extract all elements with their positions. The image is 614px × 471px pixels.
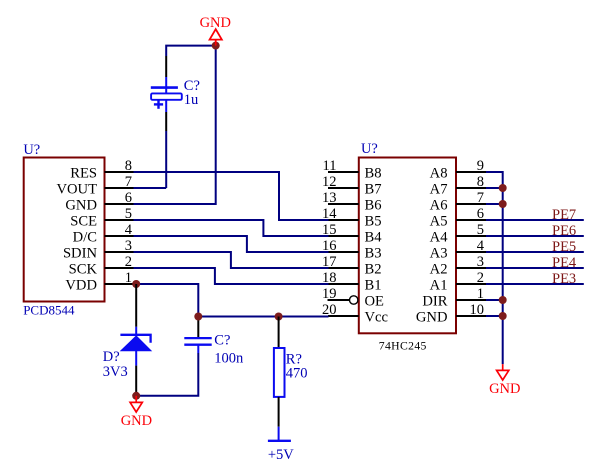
svg-text:U?: U? bbox=[23, 142, 40, 158]
wire net PE7 bbox=[486, 219, 584, 221]
svg-text:3: 3 bbox=[125, 238, 132, 254]
wire SCK(2) to B1(18) bbox=[134, 268, 329, 284]
svg-text:4: 4 bbox=[477, 238, 485, 254]
pin 12 (B7) of U2 74HC245 bbox=[322, 174, 382, 198]
value 1u of C1 bbox=[184, 92, 199, 108]
svg-text:B7: B7 bbox=[365, 182, 382, 198]
svg-text:GND: GND bbox=[65, 198, 97, 214]
svg-text:Vcc: Vcc bbox=[365, 310, 389, 326]
svg-text:A8: A8 bbox=[430, 166, 448, 182]
pin 14 (B5) of U2 74HC245 bbox=[322, 206, 382, 230]
svg-text:4: 4 bbox=[125, 222, 133, 238]
pin 15 (B4) of U2 74HC245 bbox=[322, 222, 382, 246]
junction bus row 7 bbox=[499, 200, 507, 208]
pin 6 (GND) of U1 PCD8544 bbox=[65, 190, 133, 214]
svg-text:1: 1 bbox=[477, 286, 484, 302]
wire VDD(1) to Vcc node bbox=[134, 284, 199, 317]
svg-text:PE6: PE6 bbox=[552, 223, 576, 239]
pin 5 (SCE) of U1 PCD8544 bbox=[70, 206, 133, 230]
pin 2 (SCK) of U1 PCD8544 bbox=[69, 254, 134, 278]
svg-text:D?: D? bbox=[103, 349, 120, 365]
svg-text:6: 6 bbox=[125, 190, 132, 206]
designator R? of R1 bbox=[286, 351, 302, 367]
svg-text:A4: A4 bbox=[430, 230, 449, 246]
pin 7 (A6) of U2 74HC245 bbox=[430, 190, 486, 214]
wire A6(7) to bus bbox=[486, 203, 503, 205]
svg-text:2: 2 bbox=[477, 270, 484, 286]
designator U? of 74HC245 bbox=[361, 141, 378, 157]
svg-text:B3: B3 bbox=[365, 246, 382, 262]
wire DIR(1) to bus bbox=[486, 299, 503, 301]
value 100n of C2 bbox=[214, 350, 244, 366]
pin 3 (A2) of U2 74HC245 bbox=[430, 254, 486, 278]
power port +5V bbox=[268, 427, 294, 463]
svg-text:DIR: DIR bbox=[422, 294, 447, 310]
value 3V3 of D1 bbox=[103, 364, 128, 380]
svg-text:U?: U? bbox=[361, 141, 378, 157]
svg-text:8: 8 bbox=[477, 174, 484, 190]
wire GND(10) to bus bbox=[486, 315, 503, 317]
svg-text:74HC245: 74HC245 bbox=[379, 340, 427, 353]
svg-text:3V3: 3V3 bbox=[103, 364, 128, 380]
svg-text:+5V: +5V bbox=[268, 447, 294, 463]
svg-text:PE3: PE3 bbox=[552, 271, 576, 287]
wire A7(8) to bus bbox=[486, 187, 503, 189]
svg-text:GND: GND bbox=[416, 310, 448, 326]
pin 5 (A4) of U2 74HC245 bbox=[430, 222, 486, 246]
junction bus row 1 bbox=[499, 296, 507, 304]
pin 10 (GND) of U2 74HC245 bbox=[416, 302, 486, 326]
junction at top GND bbox=[212, 42, 220, 50]
wire Vcc node to pin 20 bbox=[198, 316, 328, 318]
comment label 74HC245 bbox=[379, 340, 427, 353]
svg-text:2: 2 bbox=[125, 254, 132, 270]
pin 13 (B6) of U2 74HC245 bbox=[322, 190, 382, 214]
junction bus row 8 bbox=[499, 184, 507, 192]
svg-text:A3: A3 bbox=[430, 246, 448, 262]
svg-text:B2: B2 bbox=[365, 262, 382, 278]
resistor R1 470 bbox=[274, 317, 285, 427]
wire A8(9) down right bus bbox=[486, 172, 503, 364]
svg-text:OE: OE bbox=[365, 294, 385, 310]
svg-text:PE7: PE7 bbox=[552, 207, 576, 223]
wire top: C1 top to GND port bbox=[166, 46, 216, 56]
svg-text:VDD: VDD bbox=[65, 278, 97, 294]
pin 20 (Vcc) of U2 74HC245 bbox=[322, 302, 389, 326]
pin 8 (RES) of U1 PCD8544 bbox=[70, 158, 133, 182]
net label PE3 bbox=[552, 271, 576, 287]
net label PE7 bbox=[552, 207, 576, 223]
wire SCE(5) to B4(15) bbox=[134, 220, 329, 236]
pin 6 (A5) of U2 74HC245 bbox=[430, 206, 486, 230]
svg-text:B5: B5 bbox=[365, 214, 382, 230]
junction bottom-left GND node bbox=[132, 392, 140, 400]
svg-text:GND: GND bbox=[489, 381, 520, 397]
pin 9 (A8) of U2 74HC245 bbox=[430, 158, 486, 182]
svg-text:A5: A5 bbox=[430, 214, 448, 230]
svg-text:11: 11 bbox=[323, 158, 337, 174]
junction bus row 10 bbox=[499, 312, 507, 320]
power port GND (top) bbox=[200, 15, 231, 46]
net label PE4 bbox=[552, 255, 577, 271]
wire net PE5 bbox=[486, 251, 584, 253]
svg-text:D/C: D/C bbox=[73, 230, 97, 246]
pin 18 (B1) of U2 74HC245 bbox=[322, 270, 382, 294]
svg-text:8: 8 bbox=[125, 158, 132, 174]
pin 1 (VDD) of U1 PCD8544 bbox=[65, 270, 133, 294]
svg-text:SCK: SCK bbox=[69, 262, 98, 278]
junction R1 node bbox=[275, 313, 283, 321]
net label PE6 bbox=[552, 223, 576, 239]
pin 1 (DIR) of U2 74HC245 bbox=[422, 286, 486, 310]
pin 2 (A1) of U2 74HC245 bbox=[430, 270, 486, 294]
value 470 of R1 bbox=[286, 365, 308, 381]
designator C? of C1 bbox=[184, 78, 200, 94]
pin 17 (B2) of U2 74HC245 bbox=[322, 254, 382, 278]
svg-text:A7: A7 bbox=[430, 182, 448, 198]
svg-text:RES: RES bbox=[70, 166, 97, 182]
wire VOUT(7) to C1 bottom bbox=[134, 187, 167, 189]
svg-text:B6: B6 bbox=[365, 198, 382, 214]
svg-text:10: 10 bbox=[470, 302, 485, 318]
comment label PCD8544 bbox=[23, 303, 75, 318]
svg-text:A1: A1 bbox=[430, 278, 448, 294]
svg-text:B8: B8 bbox=[365, 166, 382, 182]
svg-text:PCD8544: PCD8544 bbox=[23, 303, 75, 318]
svg-text:5: 5 bbox=[477, 222, 484, 238]
IC U2 74HC245 body bbox=[359, 158, 456, 334]
svg-text:5: 5 bbox=[125, 206, 132, 222]
wire RES(8) to B5(14) bbox=[134, 172, 329, 220]
pin 8 (A7) of U2 74HC245 bbox=[430, 174, 486, 198]
pin 19 (OE) of U2 74HC245 bbox=[322, 286, 384, 310]
wire D/C(4) to B3(16) bbox=[134, 236, 329, 252]
designator C? of C2 bbox=[214, 332, 230, 348]
svg-text:C?: C? bbox=[214, 332, 230, 348]
svg-text:7: 7 bbox=[125, 174, 132, 190]
power port GND (bottom right) bbox=[489, 364, 520, 397]
svg-text:A6: A6 bbox=[430, 198, 448, 214]
pin 11 (B8) of U2 74HC245 bbox=[323, 158, 382, 182]
svg-text:VOUT: VOUT bbox=[56, 182, 97, 198]
wire net PE3 bbox=[486, 283, 584, 285]
pin 4 (D/C) of U1 PCD8544 bbox=[73, 222, 134, 246]
IC U1 PCD8544 body bbox=[24, 158, 105, 302]
designator D? of D1 bbox=[103, 349, 120, 365]
svg-text:A2: A2 bbox=[430, 262, 448, 278]
power port GND (bottom left) bbox=[121, 396, 152, 429]
wire bottom-left node to C2 bottom bbox=[136, 353, 198, 396]
pin 3 (SDIN) of U1 PCD8544 bbox=[63, 238, 134, 262]
svg-text:1u: 1u bbox=[184, 92, 199, 108]
svg-text:B4: B4 bbox=[365, 230, 383, 246]
svg-text:B1: B1 bbox=[365, 278, 382, 294]
svg-text:19: 19 bbox=[322, 286, 337, 302]
svg-text:1: 1 bbox=[125, 270, 132, 286]
svg-text:3: 3 bbox=[477, 254, 484, 270]
wire net PE4 bbox=[486, 267, 584, 269]
designator U? of PCD8544 bbox=[23, 142, 40, 158]
svg-text:12: 12 bbox=[322, 174, 337, 190]
svg-text:PE4: PE4 bbox=[552, 255, 577, 271]
wire GND(6) to top GND port bbox=[134, 46, 216, 204]
net label PE5 bbox=[552, 239, 576, 255]
zener diode D1 3V3 bbox=[120, 284, 151, 396]
capacitor C1 1u (polarized) bbox=[151, 56, 182, 188]
svg-text:GND: GND bbox=[121, 413, 152, 429]
svg-text:PE5: PE5 bbox=[552, 239, 576, 255]
pin 7 (VOUT) of U1 PCD8544 bbox=[56, 174, 133, 198]
wire SDIN(3) to B2(17) bbox=[134, 252, 329, 268]
svg-text:SCE: SCE bbox=[70, 214, 97, 230]
svg-text:SDIN: SDIN bbox=[63, 246, 98, 262]
svg-text:13: 13 bbox=[322, 190, 337, 206]
svg-text:470: 470 bbox=[286, 365, 308, 381]
wire net PE6 bbox=[486, 235, 584, 237]
junction VDD node bbox=[132, 280, 140, 288]
svg-text:9: 9 bbox=[477, 158, 484, 174]
svg-text:6: 6 bbox=[477, 206, 484, 222]
svg-text:100n: 100n bbox=[214, 350, 244, 366]
pin 4 (A3) of U2 74HC245 bbox=[430, 238, 486, 262]
svg-text:7: 7 bbox=[477, 190, 484, 206]
pin 16 (B3) of U2 74HC245 bbox=[322, 238, 382, 262]
junction C2/VDD node bbox=[194, 313, 202, 321]
capacitor C2 100n bbox=[184, 317, 211, 354]
